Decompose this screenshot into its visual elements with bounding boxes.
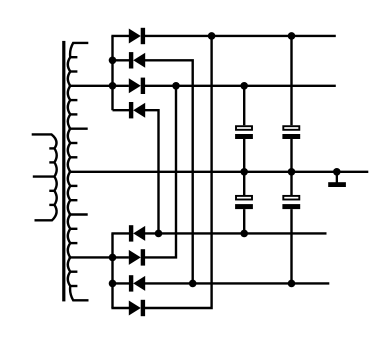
diode D3: [129, 78, 141, 93]
wire row1 left: [111, 35, 129, 37]
node dot row7/v3: [189, 280, 197, 288]
diode D8: [129, 301, 141, 316]
node dot bottom bus/D7: [109, 280, 117, 288]
secondary stub lead k6: [69, 127, 88, 129]
ground symbol: [328, 168, 346, 187]
node dot bottom bus/tap/D6: [109, 254, 117, 262]
node dot rail1/v4: [208, 32, 216, 40]
primary tick 2: [49, 161, 54, 163]
wire row2 to vertical v3: [145, 60, 193, 283]
node dot bus/tap/D3: [109, 82, 117, 90]
node dot bus/D2: [109, 57, 117, 65]
wire row7 left: [113, 282, 130, 284]
wire row6 to vertical v2: [145, 86, 176, 258]
capacitor C2 (upper right, polarized): [282, 126, 300, 139]
wire row7 rail (-V2 output rail): [145, 282, 330, 284]
wire top bus vertical (anode bus D1-D4): [111, 36, 113, 110]
wire row5 left: [111, 232, 129, 234]
secondary center tap / common rail wire to ground: [69, 171, 369, 173]
transformer secondary winding: [68, 43, 89, 300]
capacitor C1 (upper left, polarized): [235, 126, 253, 139]
node dot rail3/cap column 1: [240, 82, 248, 90]
diode D5: [129, 225, 133, 241]
primary tick 5: [49, 204, 54, 206]
transformer primary winding: [32, 134, 57, 220]
secondary tick k7: [70, 142, 77, 144]
secondary tick k17: [70, 285, 77, 287]
diode D2: [129, 52, 133, 68]
wire row3 rail (+V2 output rail): [145, 85, 336, 87]
diode D7: [129, 275, 133, 291]
wire bottom bus vertical (bus D5-D8): [111, 233, 113, 308]
diode D4: [129, 102, 133, 118]
primary tick 1: [49, 147, 54, 149]
secondary tick k4: [70, 99, 77, 101]
secondary tick k1: [70, 56, 77, 58]
secondary tick k5: [70, 113, 77, 115]
wire row8 to vertical v4: [145, 36, 212, 308]
node dot row5/cap column 1: [240, 230, 248, 238]
diode D1: [129, 29, 141, 44]
capacitor C4 (lower right, polarized): [282, 196, 300, 209]
secondary tick k11: [70, 199, 77, 201]
secondary tap to top bridge (node with diodes D1-D4): [69, 85, 129, 87]
wire capacitor column 2 stems: [290, 36, 292, 284]
secondary tick k2: [70, 70, 77, 72]
secondary stub lead k12: [69, 213, 88, 215]
node dot rail3/v2: [172, 82, 180, 90]
node dot rail1/cap column 2: [288, 32, 296, 40]
secondary tick k13: [70, 228, 77, 230]
wire row2 left: [113, 59, 130, 61]
node dot center rail/cap column 2: [288, 168, 296, 176]
secondary tick k10: [70, 185, 77, 187]
node dot row7/cap column 2: [288, 280, 296, 288]
capacitor C3 (lower left, polarized): [235, 196, 253, 209]
wire row4 to vertical v1: [145, 110, 159, 233]
primary center tap: [33, 175, 55, 177]
diode D6: [129, 250, 141, 265]
node dot center rail/cap column 1: [240, 168, 248, 176]
node dot row5/v1: [155, 230, 163, 238]
secondary tap to bottom bridge (node with diodes D5-D8): [69, 256, 129, 258]
wire row4 left: [113, 109, 130, 111]
secondary tick k14: [70, 242, 77, 244]
primary tick 4: [49, 190, 54, 192]
secondary tick k8: [70, 156, 77, 158]
wire capacitor column 1 stems: [243, 86, 245, 234]
secondary tick k16: [70, 271, 77, 273]
wire row8 left: [111, 307, 129, 309]
transformer core: [62, 41, 65, 302]
wire row5 rail (-V output rail): [145, 232, 327, 234]
wire row1 rail (+V1 output rail): [145, 35, 336, 37]
